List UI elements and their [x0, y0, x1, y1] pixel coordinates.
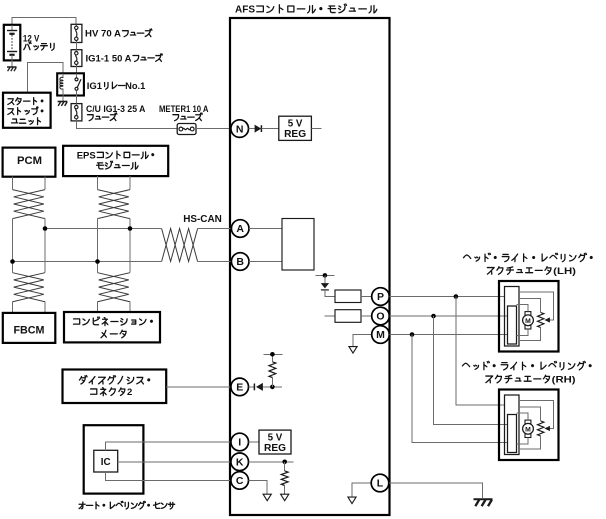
wire K internal [249, 461, 294, 463]
node junction CAN-H at PCM [43, 226, 48, 231]
svg-text:P: P [377, 291, 384, 303]
wire [76, 96, 78, 104]
svg-text:5 V: 5 V [288, 118, 303, 129]
resistor position sensor RH [538, 421, 544, 436]
regulator 5V REG at I [259, 430, 291, 454]
wire M to internal ground [353, 335, 372, 347]
ground chassis relay [58, 96, 68, 106]
label METER1 10A fuse [159, 104, 209, 121]
node junction M branch [410, 332, 415, 337]
label 12V battery [23, 33, 54, 50]
terminal P [372, 288, 390, 306]
motor M LH [523, 312, 534, 329]
terminal E [231, 378, 249, 396]
svg-text:A: A [236, 223, 244, 235]
svg-text:C: C [236, 475, 244, 487]
terminal K [231, 453, 249, 471]
ground arrow M internal [349, 347, 357, 354]
wire L to internal ground [352, 483, 371, 497]
svg-text:M: M [525, 427, 531, 434]
wire IC to C [105, 472, 231, 480]
svg-text:12 V: 12 V [23, 33, 40, 43]
wire motor supply RH [517, 413, 528, 420]
svg-text:FBCM: FBCM [14, 325, 45, 337]
connector RH [505, 395, 520, 455]
wire O to LH actuator [389, 315, 507, 317]
CAN transceiver block [282, 219, 314, 271]
svg-text:K: K [236, 457, 244, 469]
wire CAN-H bus [45, 228, 162, 230]
wire driver to O [361, 315, 372, 317]
PCM module [3, 148, 56, 177]
twisted pair combination meter [98, 273, 131, 312]
wire C internal [249, 480, 268, 494]
battery 12V [4, 25, 21, 67]
motor M RH [523, 420, 534, 437]
wire B to CAN block [249, 261, 282, 263]
node power rail at E [264, 352, 283, 357]
node junction CAN-H at EPS [128, 226, 133, 231]
diode at N [249, 125, 279, 133]
label IG1 relay No.1 [87, 81, 146, 92]
wire sensor high LH [519, 298, 541, 312]
connector LH [505, 287, 520, 347]
node junction O branch [431, 314, 436, 319]
svg-text:HS-CAN: HS-CAN [183, 214, 222, 225]
svg-text:2: 2 [127, 387, 132, 398]
resistor position sensor LH [538, 313, 544, 328]
svg-text:5 V: 5 V [268, 432, 283, 443]
wire P to LH actuator [389, 296, 504, 298]
ground arrow C [263, 494, 271, 501]
wire IC to K [118, 461, 232, 463]
wire M to LH actuator [389, 334, 507, 336]
regulator 5V REG at N [279, 116, 322, 140]
wire [75, 67, 77, 74]
svg-text:EPS: EPS [77, 150, 96, 161]
node junction K [282, 460, 287, 465]
ground arrow K [281, 494, 289, 501]
wire sensor high RH [519, 407, 541, 421]
wire O branch to RH actuator [434, 316, 508, 424]
wire sensor low RH [519, 436, 541, 449]
twisted pair PCM [13, 177, 46, 273]
twisted pair EPS [98, 176, 131, 273]
wire IC to I [105, 442, 231, 450]
headlight leveling actuator LH box [499, 281, 559, 352]
wire driver to P [361, 296, 372, 298]
wire METER1 fuse to terminal N [196, 128, 231, 130]
driver block P [335, 290, 361, 303]
FBCM module [3, 313, 56, 343]
label headlight leveling actuator RH [462, 361, 591, 385]
svg-text:L: L [377, 478, 384, 490]
terminal B [231, 253, 249, 271]
wiper arrow RH [519, 401, 554, 431]
wire [75, 43, 77, 50]
fuse IG1-1 50A [71, 50, 82, 67]
terminal N [231, 120, 249, 138]
node junction CAN-L at PCM [10, 259, 15, 264]
svg-text:IG1: IG1 [87, 81, 103, 92]
wire motor return LH [517, 329, 528, 335]
ground arrow L internal [348, 497, 356, 504]
terminal L [371, 474, 389, 492]
terminal O [372, 307, 390, 325]
relay IG1 No.1 [57, 73, 84, 95]
node junction CAN-L at EPS [95, 259, 100, 264]
svg-text:N: N [236, 123, 244, 135]
auto leveling sensor [84, 425, 144, 493]
label HV 70A fuse [85, 29, 152, 40]
ground chassis L [474, 499, 493, 506]
label C/U IG1-3 25A fuse [86, 104, 146, 121]
wire C/U fuse to METER1 fuse [76, 121, 177, 129]
node power rail at P driver [315, 273, 334, 278]
svg-text:M: M [525, 318, 531, 325]
resistor pull-up at E [269, 354, 276, 387]
diode at E [249, 383, 282, 391]
fuse HV 70A [71, 24, 82, 42]
terminal A [231, 220, 249, 238]
twisted pair HS-CAN [162, 229, 232, 262]
svg-text:M: M [376, 329, 385, 341]
svg-text:E: E [236, 382, 243, 394]
wire A to CAN block [249, 228, 282, 230]
label auto leveling sensor [79, 501, 175, 509]
label IG1-1 50A fuse [86, 53, 163, 64]
diagnosis connector 2 [63, 370, 167, 404]
label AFS control module [235, 4, 377, 16]
node junction P branch [454, 294, 459, 299]
resistor pull-down K [281, 462, 288, 494]
wire start-stop unit to relay coil [28, 63, 63, 93]
svg-text:(RH): (RH) [552, 374, 576, 385]
svg-text:B: B [236, 256, 244, 268]
svg-text:I: I [238, 437, 241, 449]
ground chassis battery [7, 67, 16, 71]
headlight leveling actuator RH box [499, 390, 559, 461]
wire I to regulator [249, 441, 260, 443]
AFS control module box [230, 18, 390, 515]
wire L to chassis ground [389, 483, 482, 498]
svg-text:(LH): (LH) [553, 266, 576, 277]
terminal C [231, 472, 249, 490]
wiper arrow LH [519, 292, 554, 322]
wire motor supply LH [517, 305, 528, 312]
wire P branch to RH actuator [456, 297, 505, 406]
wire diagnosis connector to E [166, 386, 231, 388]
driver block O [335, 310, 361, 323]
node junction at E [270, 385, 275, 390]
wire sensor low LH [519, 328, 541, 341]
svg-text:AFS: AFS [235, 5, 255, 16]
svg-text:PCM: PCM [17, 155, 42, 167]
diode at P driver [321, 275, 335, 296]
svg-text:IG1-1 50 A: IG1-1 50 A [86, 53, 132, 64]
terminal M [372, 326, 390, 344]
svg-text:REG: REG [284, 129, 306, 140]
svg-text:REG: REG [264, 443, 286, 454]
start-stop unit [3, 93, 51, 128]
svg-text:IC: IC [101, 457, 111, 468]
twisted pair FBCM [13, 273, 46, 313]
label headlight leveling actuator LH [464, 253, 593, 277]
label HS-CAN [183, 214, 222, 225]
wire stub at O driver [325, 315, 335, 317]
svg-text:HV 70 A: HV 70 A [85, 29, 121, 40]
wire battery positive to HV fuse [12, 18, 76, 31]
fuse C/U IG1-3 25A [71, 104, 82, 121]
wire CAN-L bus [13, 261, 162, 263]
terminal I [231, 433, 249, 451]
fuse METER1 10A horizontal [177, 124, 196, 135]
svg-text:No.1: No.1 [125, 81, 146, 92]
wire motor return RH [517, 438, 528, 444]
combination meter [64, 312, 160, 342]
svg-text:O: O [376, 311, 384, 323]
EPS control module [63, 146, 168, 176]
wire M branch to RH actuator [412, 335, 508, 443]
